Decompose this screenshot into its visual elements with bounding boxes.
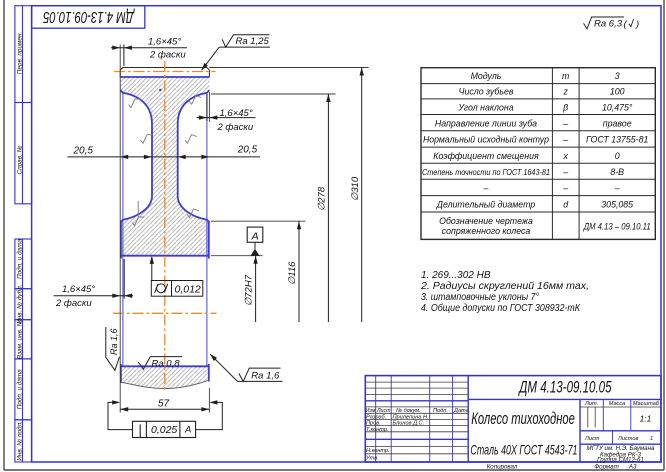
chamfer edge thin blue lines [123,93,207,366]
designation box top-left (rotated 180) [32,6,145,29]
svg-text:2 фаски: 2 фаски [55,298,92,309]
left margin vertical labels [15,32,23,461]
root line (top of rim) [120,76,209,78]
Ra 1,6 left rotated symbol [106,327,120,370]
svg-text:0,012: 0,012 [175,284,201,296]
svg-text:Лист: Лист [376,408,391,414]
svg-text:∅278: ∅278 [317,186,328,211]
20,5 dim line [68,156,261,158]
svg-text:Угол наклона: Угол наклона [457,102,513,112]
datum A stem [254,242,256,249]
svg-text:0,025: 0,025 [151,424,177,436]
svg-text:100: 100 [610,87,625,97]
svg-text:Лит.: Лит. [584,401,598,407]
svg-text:d: d [563,199,569,209]
right chamfer dim [206,94,208,121]
dia278 [211,93,336,95]
general roughness Ra 6,3 top right [584,17,634,29]
svg-text:–: – [562,135,568,145]
tooth tip line (thin dark) + chamfers [120,68,209,78]
svg-text:А3: А3 [628,463,637,470]
svg-text:Перв. примен.: Перв. примен. [16,32,23,74]
cylindricity leader [151,257,153,281]
svg-text:20,5: 20,5 [73,146,94,157]
hatched section: rim + web + hub [120,77,209,256]
svg-text:Сталь 40Х ГОСТ 4543-71: Сталь 40Х ГОСТ 4543-71 [470,443,577,459]
svg-text:Ra 0,8: Ra 0,8 [152,358,181,369]
svg-text:ГОСТ 13755-81: ГОСТ 13755-81 [586,135,648,145]
svg-text:Листов: Листов [617,436,638,442]
svg-text:): ) [635,19,639,30]
svg-text:сопряженного колеса: сопряженного колеса [442,226,531,236]
small blue vertex dot [159,89,161,91]
svg-text:1,6×45°: 1,6×45° [62,284,95,295]
svg-text:Степень точности по ГОСТ 1643-: Степень точности по ГОСТ 1643-81 [422,168,550,177]
svg-text:2. Радиусы скруглений 16мм max: 2. Радиусы скруглений 16мм max, [420,281,589,292]
svg-text:∅72H7: ∅72H7 [244,274,255,306]
svg-text:№ докум.: № докум. [396,408,421,414]
svg-text:–: – [562,119,568,129]
svg-text:β: β [562,102,568,112]
svg-text:20,5: 20,5 [237,145,258,156]
svg-text:(: ( [624,19,628,30]
svg-text:правое: правое [603,119,632,129]
svg-text:Лист: Лист [584,436,600,442]
svg-text:Прилепина Н.: Прилепина Н. [393,415,429,421]
svg-text:8-В: 8-В [610,167,624,177]
svg-text:z: z [562,87,568,97]
svg-text:–: – [614,183,620,193]
svg-text:Копировал: Копировал [487,463,518,470]
svg-text:Взам. инв. №: Взам. инв. № [16,319,23,359]
svg-text:Дата: Дата [453,408,469,414]
svg-text:∅116: ∅116 [287,261,298,285]
57 dim [120,408,209,410]
left margin boxes [15,6,32,462]
top chamfer dim [123,45,125,67]
dia116 [211,220,306,222]
right face segments [208,221,210,259]
roughness ticks inside recesses (gray) [129,96,202,226]
svg-text:57: 57 [158,399,170,410]
svg-text:3. штамповочные уклоны 7°: 3. штамповочные уклоны 7° [421,292,539,303]
svg-text:Масса: Масса [609,401,626,407]
svg-text:10,475°: 10,475° [602,102,633,112]
svg-text:Коэффициент смещения: Коэффициент смещения [433,151,539,161]
svg-text:Направление линии зуба: Направление линии зуба [435,119,537,129]
svg-text:4. Общие допуски по ГОСТ 30893: 4. Общие допуски по ГОСТ 308932-тК [421,302,581,314]
centerlines orange [113,61,217,392]
svg-text:Подп. и дата: Подп. и дата [15,369,23,409]
svg-text:x: x [562,151,568,161]
Ra 1,25 leader [202,47,220,70]
svg-text:Ra 6,3: Ra 6,3 [594,19,623,30]
cylindricity tolerance frame [151,281,203,297]
svg-text:∅310: ∅310 [350,176,361,201]
svg-text:–: – [562,167,568,177]
dia310 [209,67,368,69]
svg-text:A: A [251,230,259,242]
svg-text:m: m [562,71,569,81]
svg-text:Колесо тихоходное: Колесо тихоходное [471,410,575,429]
svg-text:Подп.: Подп. [433,408,448,414]
svg-text:Справ. №: Справ. № [16,145,23,174]
svg-text:ДМ 4.13-09.10.05: ДМ 4.13-09.10.05 [518,379,612,398]
long extension lines left/right faces [119,45,121,413]
wheel blue contour [120,77,209,383]
notes [420,270,589,314]
svg-text:–: – [562,183,568,193]
perpendicularity tolerance frame [133,421,196,437]
svg-text:Ra 1,6: Ra 1,6 [109,328,119,355]
svg-text:Утв.: Утв. [365,456,379,462]
svg-text:1,6×45°: 1,6×45° [220,108,253,119]
svg-text:0: 0 [615,151,620,161]
svg-text:1,6×45°: 1,6×45° [148,37,181,48]
svg-text:Блинов Д.С.: Блинов Д.С. [393,421,425,427]
svg-text:Модуль: Модуль [471,71,502,81]
Ra 1,6 right: leader + symbol [210,354,237,381]
rim inner + web + hub fillets outline [120,90,152,222]
svg-text:Ra 1,6: Ra 1,6 [251,370,280,381]
svg-text:ДМ 4.13 – 09.10.11: ДМ 4.13 – 09.10.11 [583,221,651,231]
left face segments [120,221,122,259]
svg-text:Разраб.: Разраб. [366,415,386,421]
datum A box [247,227,263,242]
svg-text:ДМ 4.13-09.10.05: ДМ 4.13-09.10.05 [43,9,136,27]
wavy break line [120,380,209,389]
svg-text:Инв. № дубл.: Инв. № дубл. [15,285,23,324]
bore top line [120,255,209,257]
svg-text:Пров.: Пров. [366,421,381,427]
svg-text:Делительный диаметр: Делительный диаметр [436,199,536,209]
svg-text:Изм: Изм [366,408,376,414]
svg-text:Ra 1,25: Ra 1,25 [236,36,270,47]
svg-text:1:1: 1:1 [640,414,652,424]
hatched bottom band below bore [120,366,209,388]
svg-text:Подп. и дата: Подп. и дата [15,239,23,279]
perpendicularity leaders [108,402,133,429]
svg-text:A: A [184,425,191,436]
svg-text:Формат: Формат [594,463,619,470]
bore bottom line [120,365,209,367]
svg-text:Группа СМ12-61: Группа СМ12-61 [597,456,644,463]
Ra 0,8 symbol [138,357,150,370]
svg-text:1. 269...302 НВ: 1. 269...302 НВ [421,270,491,281]
svg-text:Т.контр.: Т.контр. [366,427,389,433]
bottom chamfer dim [123,259,125,299]
arrowheads [112,46,364,412]
svg-text:–: – [483,183,489,193]
svg-text:Масштаб: Масштаб [633,401,660,407]
svg-text:305,085: 305,085 [601,199,633,209]
dimension texts [55,36,361,409]
svg-text:1: 1 [650,436,653,442]
svg-text:Обозначение чертежа: Обозначение чертежа [439,216,533,226]
svg-text:2 фаски: 2 фаски [149,50,186,61]
svg-text:Н.контр.: Н.контр. [366,448,390,454]
svg-text:Нормальный исходный контур: Нормальный исходный контур [423,135,549,145]
svg-text:Инв. № подл.: Инв. № подл. [15,421,23,461]
svg-text:2 фаски: 2 фаски [217,122,254,133]
dia72H7 [211,255,263,257]
svg-text:Число зубьев: Число зубьев [459,87,514,97]
svg-text:3: 3 [615,71,620,81]
